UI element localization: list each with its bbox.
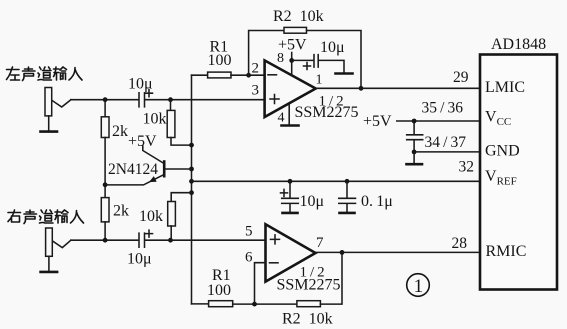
svg-text:3: 3 (252, 83, 260, 99)
svg-text:RMIC: RMIC (486, 243, 527, 260)
svg-text:SSM2275: SSM2275 (295, 104, 359, 121)
svg-text:AD1848: AD1848 (491, 36, 546, 53)
svg-text:10k: 10k (139, 208, 163, 225)
svg-text:2: 2 (252, 61, 260, 77)
svg-text:R2 10k: R2 10k (282, 311, 333, 328)
svg-text:8: 8 (277, 51, 284, 66)
svg-text:7: 7 (316, 235, 324, 251)
svg-text:10μ: 10μ (127, 251, 152, 268)
svg-text:GND: GND (485, 143, 520, 160)
svg-text:0. 1μ: 0. 1μ (361, 193, 393, 210)
svg-text:6: 6 (245, 250, 253, 266)
svg-text:10μ: 10μ (300, 193, 325, 210)
svg-text:1: 1 (414, 276, 424, 297)
svg-text:2k: 2k (112, 123, 128, 140)
svg-text:1: 1 (316, 73, 323, 88)
svg-text:10μ: 10μ (128, 76, 153, 93)
svg-text:10k: 10k (143, 111, 167, 128)
svg-text:5: 5 (245, 224, 253, 240)
svg-text:100: 100 (208, 52, 232, 69)
svg-text:35 / 36: 35 / 36 (422, 100, 464, 117)
svg-text:+5V: +5V (363, 113, 392, 130)
svg-text:10μ: 10μ (320, 39, 345, 56)
svg-text:+5V: +5V (128, 133, 157, 150)
svg-text:SSM2275: SSM2275 (277, 277, 341, 294)
svg-text:34 / 37: 34 / 37 (425, 134, 467, 151)
svg-text:4: 4 (278, 111, 285, 126)
svg-text:32: 32 (459, 159, 475, 176)
svg-text:28: 28 (452, 235, 468, 252)
svg-text:R2 10k: R2 10k (273, 8, 324, 25)
svg-text:LMIC: LMIC (485, 79, 525, 96)
svg-text:2k: 2k (113, 203, 129, 220)
svg-text:29: 29 (453, 69, 469, 86)
svg-text:2N4124: 2N4124 (108, 161, 158, 178)
svg-text:100: 100 (207, 282, 231, 299)
